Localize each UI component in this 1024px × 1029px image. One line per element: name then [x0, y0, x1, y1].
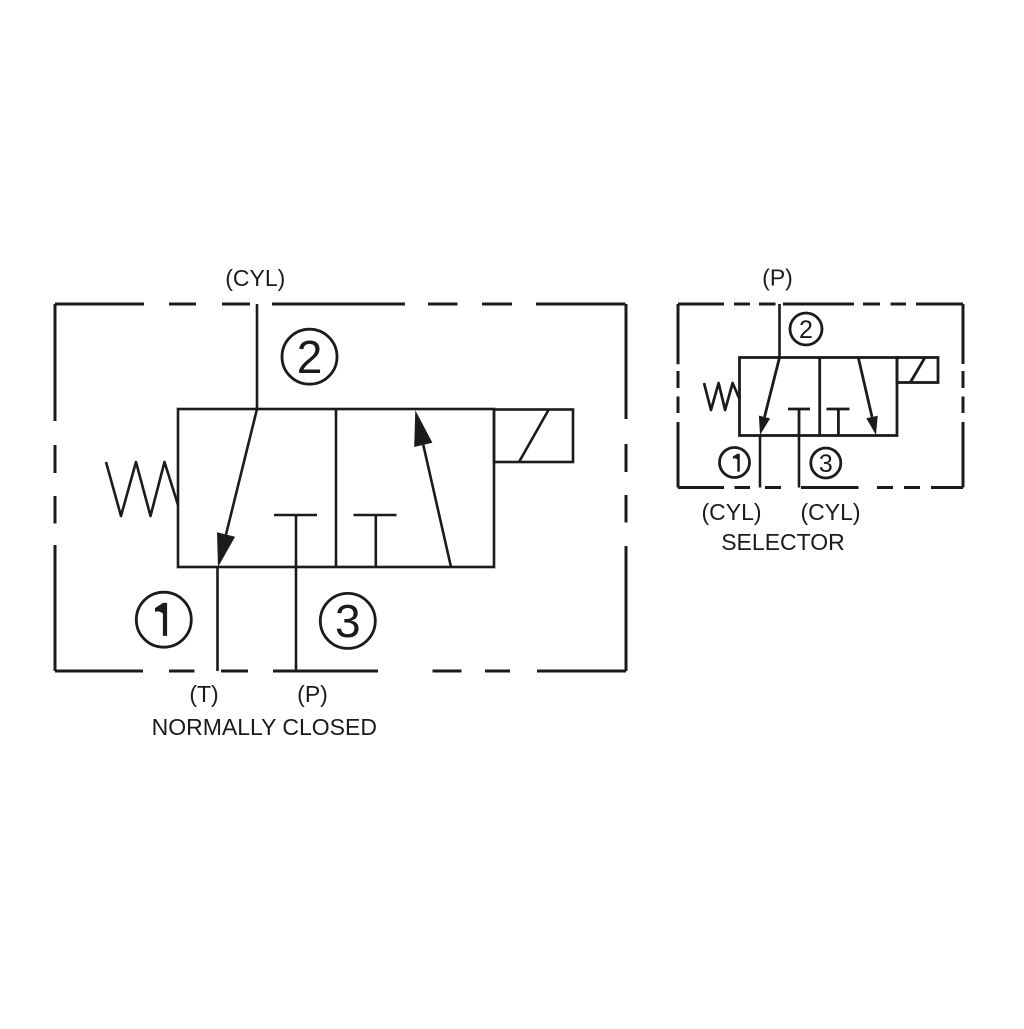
node circle 2 of V1	[282, 329, 337, 384]
node circle 1 of V1	[136, 592, 191, 647]
valve V1 enclosure bottom edge (dashed)	[55, 670, 626, 673]
flow arrow P to CYL2 (right box of V2)	[858, 358, 877, 436]
flow arrow P to CYL1 (left box of V2)	[759, 358, 780, 436]
valve V2 body (two position boxes)	[740, 358, 898, 436]
svg-text:3: 3	[335, 595, 361, 647]
valve V1 enclosure right edge (dashed)	[625, 304, 628, 671]
svg-text:(CYL): (CYL)	[701, 499, 761, 525]
valve V1 enclosure top edge (dashed)	[55, 303, 626, 306]
svg-text:(CYL): (CYL)	[800, 499, 860, 525]
node circle 3 of V1	[320, 593, 375, 648]
port line (T) at node 1	[216, 567, 219, 671]
blocked port tee (T) in right box of V1	[354, 515, 397, 567]
spring (left actuator of V2)	[704, 383, 740, 410]
flow arrow up (right box of V1)	[414, 410, 451, 567]
port line (P) at node 2 of V2	[778, 304, 781, 358]
digit 1 in node circle 1 of V2	[733, 454, 740, 472]
node circle 3 of V2	[811, 448, 841, 478]
port line (P) at node 3	[295, 567, 298, 671]
digit 1 in node circle 1 of V1	[155, 603, 167, 636]
svg-text:3: 3	[819, 450, 833, 478]
blocked port tee (left CYL) in V2	[788, 409, 810, 436]
node circle 1 of V2	[720, 448, 750, 478]
svg-text:SELECTOR: SELECTOR	[721, 529, 845, 555]
valve V2 enclosure left edge (dashed)	[677, 304, 680, 488]
valve V2 enclosure top edge (dashed)	[678, 303, 963, 306]
valve V2 enclosure bottom edge (dashed)	[678, 486, 963, 489]
port line (CYL) at node 3 of V2	[798, 436, 801, 488]
node circle 2 of V2	[790, 313, 822, 345]
blocked port tee (right CYL) in V2	[827, 409, 850, 436]
svg-text:2: 2	[297, 331, 323, 383]
solenoid coil box (right actuator of V1)	[494, 410, 573, 463]
svg-text:2: 2	[799, 316, 813, 344]
svg-text:(CYL): (CYL)	[225, 265, 285, 291]
svg-text:(T): (T)	[189, 681, 218, 707]
port line (CYL) at node 2	[256, 304, 259, 409]
svg-text:NORMALLY CLOSED: NORMALLY CLOSED	[152, 714, 377, 740]
port line (CYL) at node 1 of V2	[759, 436, 762, 488]
valve V1 body (two position boxes)	[178, 409, 494, 567]
valve V1 enclosure left edge (dashed)	[54, 304, 57, 671]
spring (left actuator of V1)	[106, 462, 178, 516]
blocked port tee (P) in left box of V1	[274, 515, 317, 567]
solenoid coil box (right actuator of V2)	[897, 358, 938, 383]
svg-text:(P): (P)	[762, 265, 793, 291]
svg-text:(P): (P)	[297, 681, 328, 707]
valve V2 enclosure right edge (dashed)	[962, 304, 965, 488]
flow arrow 2 to 1 (left box of V1)	[217, 409, 257, 567]
